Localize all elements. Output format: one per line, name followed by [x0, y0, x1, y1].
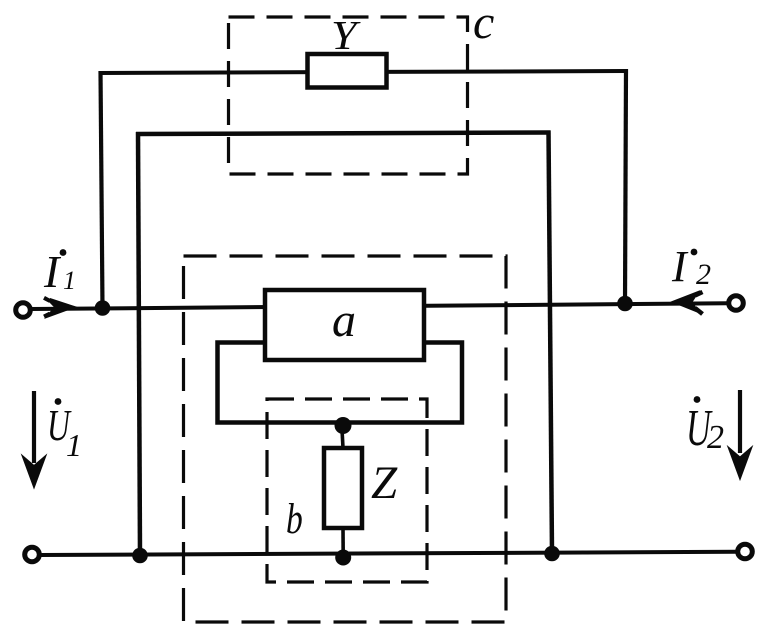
- svg-text:c: c: [473, 0, 494, 49]
- svg-text:2: 2: [707, 419, 724, 456]
- svg-text:1: 1: [66, 427, 82, 463]
- svg-text:I: I: [43, 246, 62, 297]
- svg-text:1: 1: [63, 266, 76, 295]
- svg-text:Z: Z: [371, 457, 398, 509]
- svg-text:a: a: [332, 294, 356, 347]
- svg-text:2: 2: [696, 258, 711, 291]
- svg-text:I: I: [671, 242, 689, 291]
- svg-text:b: b: [286, 496, 303, 543]
